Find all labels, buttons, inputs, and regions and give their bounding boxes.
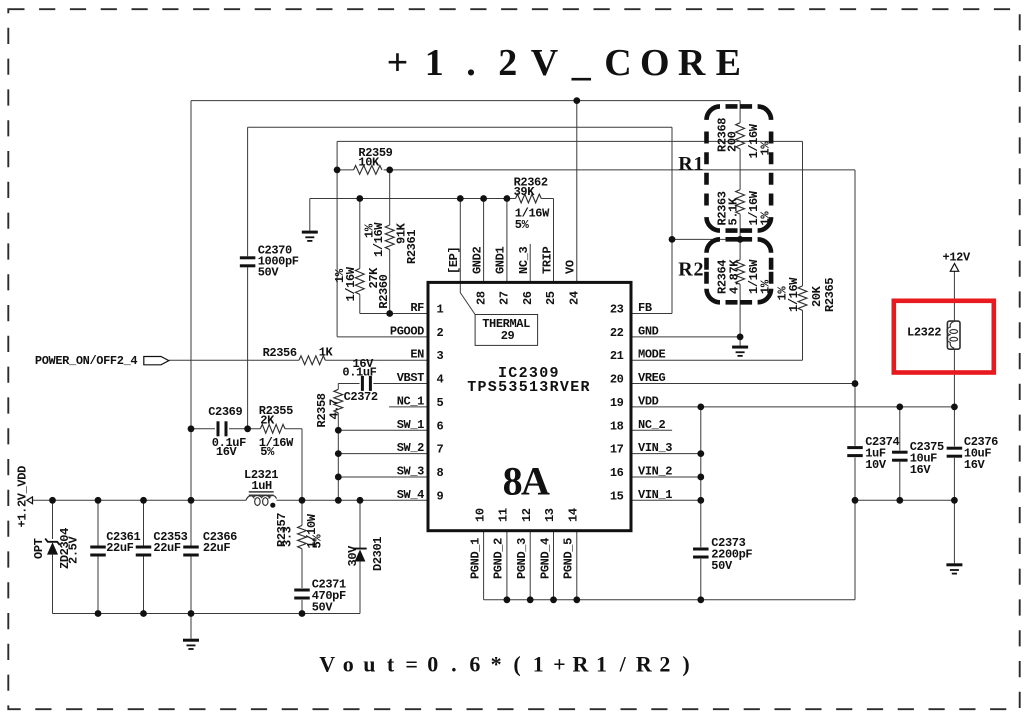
wire C2373 column: [700, 407, 702, 547]
junction FB riser node: [669, 236, 676, 243]
svg-text:MODE: MODE: [638, 348, 665, 362]
wire NC_3 stub: [529, 244, 531, 283]
svg-text:2: 2: [659, 652, 670, 677]
wire PGND bus: [484, 599, 855, 601]
junction PGND_5 on pgnd bus: [573, 596, 580, 603]
svg-text:4.87K: 4.87K: [728, 259, 742, 294]
wire C2353 column: [143, 500, 145, 545]
junction C2376 bottom on gnd row: [951, 497, 958, 504]
wire VIN_1 pin15: [631, 499, 701, 501]
svg-text:12: 12: [520, 508, 534, 522]
svg-text:C2369: C2369: [208, 405, 242, 419]
svg-text:0: 0: [427, 652, 438, 677]
zener diode ZD2304 2.5V (OPT): [45, 539, 60, 545]
svg-text:22uF: 22uF: [106, 541, 133, 555]
resistor R2359 10K: [354, 166, 382, 175]
svg-text:R: R: [573, 652, 590, 677]
capacitor C2369 0.1uF: [217, 421, 220, 436]
junction R1/R2 divider node: [737, 236, 744, 243]
svg-text:+12V: +12V: [943, 251, 971, 265]
svg-text:1: 1: [425, 42, 444, 84]
junction D2301 top on rail: [357, 497, 364, 504]
svg-text:.: .: [466, 42, 476, 84]
junction SW_3 node: [335, 474, 342, 481]
svg-text:SW_1: SW_1: [397, 418, 424, 432]
svg-text:FB: FB: [638, 301, 652, 315]
svg-text:VIN_3: VIN_3: [638, 441, 672, 455]
svg-text:16V: 16V: [964, 458, 986, 472]
svg-text:EN: EN: [410, 348, 424, 362]
wire PGOOD pin2: [337, 336, 428, 338]
capacitor C2375 10uF: [892, 451, 908, 454]
ground (right): [953, 500, 955, 563]
svg-text:1/16W: 1/16W: [372, 222, 386, 257]
svg-text:4.7: 4.7: [328, 399, 342, 420]
svg-text:39K: 39K: [514, 185, 536, 199]
svg-text:0.1uF: 0.1uF: [342, 365, 376, 379]
inductor L2322 (ferrite bead): [947, 321, 960, 349]
svg-text:20K: 20K: [810, 285, 824, 307]
svg-text:1: 1: [694, 153, 704, 175]
svg-text:26: 26: [521, 291, 535, 305]
svg-text:R: R: [678, 42, 706, 84]
svg-text:C2372: C2372: [344, 390, 378, 404]
svg-text:2: 2: [694, 259, 704, 281]
junction R2357 top on rail: [299, 497, 306, 504]
wire MODE pin21: [631, 359, 803, 361]
flag POWER_ON/OFF2_4: [144, 357, 169, 365]
svg-text:o: o: [343, 652, 354, 677]
ground (top, R2360 net): [309, 199, 311, 231]
capacitor C2373 2200pF: [693, 548, 709, 551]
wire R2360 leads: [359, 199, 361, 269]
svg-text:L2322: L2322: [907, 326, 941, 340]
wire SW_2: [338, 453, 428, 455]
wire [EP] stub: [459, 199, 461, 283]
wire RF pin1: [360, 313, 428, 315]
wire PGND_4 stub: [553, 531, 555, 600]
junction C2353 bottom on bus: [140, 610, 147, 617]
svg-text:9: 9: [437, 489, 444, 503]
wire R2358 column: [337, 383, 339, 389]
svg-text:50V: 50V: [258, 265, 280, 279]
svg-text:1: 1: [596, 652, 607, 677]
resistor R2364 4.87K: [736, 260, 745, 285]
svg-text:PGOOD: PGOOD: [390, 324, 424, 338]
junction R2361 bottom on RF: [386, 310, 393, 317]
svg-text:VREG: VREG: [638, 371, 665, 385]
wire FB pin23: [631, 313, 672, 315]
svg-text:NC_3: NC_3: [517, 247, 531, 274]
svg-text:(: (: [513, 652, 520, 677]
junction C2369 left node: [188, 425, 195, 432]
resistor R2361 91K: [385, 225, 394, 250]
svg-text:+: +: [387, 42, 409, 84]
wire NC_1 stub pin5: [389, 406, 428, 408]
wire Vout column: [190, 101, 192, 546]
inductor L2321 1uH: [249, 491, 274, 493]
wire PGND_3 stub: [529, 531, 531, 600]
junction VIN_1 node: [697, 497, 704, 504]
svg-text:NC_2: NC_2: [638, 418, 665, 432]
wire VBST pin4: [373, 383, 428, 385]
svg-text:VO: VO: [564, 260, 578, 274]
resistor R2362 39K: [516, 194, 542, 203]
resistor R2363 5.1K: [736, 190, 745, 215]
svg-text:GND1: GND1: [494, 247, 508, 274]
svg-text:3.3: 3.3: [281, 526, 295, 547]
svg-text:5%: 5%: [260, 445, 275, 459]
wire C2375 column: [899, 407, 901, 451]
wire GND1 stub: [506, 199, 508, 283]
wire SW_3: [338, 476, 428, 478]
wire bottom-left bus: [53, 613, 361, 615]
svg-text:SW_4: SW_4: [397, 488, 424, 502]
wire FB node to divider: [672, 238, 740, 240]
wire EN from flag: [169, 359, 299, 361]
wire R2362 right lead: [541, 198, 553, 200]
junction C2366 bottom / ground on bus: [188, 610, 195, 617]
svg-text:5: 5: [437, 396, 444, 410]
capacitor C2370 1000pF: [240, 256, 256, 259]
wire VIN_3 pin17: [631, 453, 701, 455]
wire VREG pin20: [631, 383, 855, 385]
svg-text:22: 22: [610, 326, 624, 340]
wire PGOOD to R2365 top: [337, 140, 802, 142]
junction PGND_4 on pgnd bus: [550, 596, 557, 603]
junction C2370 bottom node: [244, 425, 251, 432]
junction GND1 on gnd wire: [504, 195, 511, 202]
wire gnd bus top: [310, 198, 516, 200]
svg-text:SW_2: SW_2: [397, 441, 424, 455]
svg-text:PGND_5: PGND_5: [562, 538, 576, 579]
red highlight box: [894, 301, 994, 373]
svg-text:PGND_4: PGND_4: [538, 538, 552, 579]
capacitor C2353 22uF: [136, 546, 152, 549]
junction C2375 top on VDD: [896, 404, 903, 411]
svg-text:GND: GND: [638, 324, 659, 338]
svg-text:10K: 10K: [358, 155, 380, 169]
capacitor C2361 22uF: [90, 546, 106, 549]
svg-text:TPS53513RVER: TPS53513RVER: [467, 379, 591, 396]
junction C2361 top on rail: [95, 497, 102, 504]
svg-text:5%: 5%: [515, 218, 530, 232]
wire zener column: [52, 500, 54, 539]
thermal pad box: [475, 315, 537, 346]
svg-text:20: 20: [610, 373, 624, 387]
svg-text:u: u: [363, 652, 375, 677]
junction GND pin / R2364 bottom: [737, 333, 744, 340]
junction C2353 top on rail: [140, 497, 147, 504]
wire NC_2 stub pin18: [631, 429, 672, 431]
dashed box R1: [707, 106, 772, 230]
junction R2358 bottom on rail: [335, 497, 342, 504]
svg-text:VIN_1: VIN_1: [638, 488, 672, 502]
wire GND2 stub: [483, 199, 485, 283]
capacitor C2372 0.1uF: [361, 376, 364, 391]
junction SW_2 node: [335, 450, 342, 457]
resistor R2356 1K: [299, 356, 325, 365]
wire R2357/C2371 column: [301, 500, 303, 525]
svg-text:6: 6: [437, 419, 444, 433]
wire right gnd row: [855, 499, 954, 501]
svg-text:1K: 1K: [319, 346, 334, 360]
resistor R2365 20K: [798, 286, 807, 311]
svg-text:t: t: [387, 652, 395, 677]
junction R2360 top on gnd wire: [356, 195, 363, 202]
wire GND pin22: [631, 336, 740, 338]
ground (divider): [739, 337, 741, 346]
svg-text:.: .: [451, 652, 457, 677]
junction GND2 on gnd wire: [480, 195, 487, 202]
svg-text:V: V: [319, 652, 335, 677]
svg-text:7: 7: [437, 443, 444, 457]
svg-text:19: 19: [610, 396, 624, 410]
svg-text:V: V: [531, 42, 559, 84]
svg-text:24: 24: [568, 291, 582, 305]
wire R2365 top lead: [802, 141, 804, 286]
wire PGOOD riser: [336, 141, 338, 336]
capacitor C2376 10uF: [947, 447, 963, 450]
junction R2359 left: [334, 167, 341, 174]
svg-text:1/16W: 1/16W: [344, 266, 358, 301]
junction PGND_2 on pgnd bus: [504, 596, 511, 603]
svg-text:14: 14: [567, 508, 581, 522]
svg-text:22uF: 22uF: [203, 541, 230, 555]
junction C2374 bottom on gnd row: [852, 497, 859, 504]
svg-text:22uF: 22uF: [153, 541, 180, 555]
capacitor C2374 1uF: [847, 446, 863, 449]
svg-text:3: 3: [437, 349, 444, 363]
junction VDD node at C2373 column: [697, 404, 704, 411]
wire R2355 right lead to SW column: [285, 428, 302, 430]
junction C2366 top on rail: [188, 497, 195, 504]
wire R2359 to VREG: [384, 169, 855, 171]
wire VDD pin19: [631, 406, 954, 408]
svg-text:[EP]: [EP]: [447, 247, 461, 274]
svg-text:PGND_1: PGND_1: [468, 538, 482, 579]
svg-text:VIN_2: VIN_2: [638, 464, 672, 478]
wire C2369 line: [191, 428, 215, 430]
wire PGND_5 stub: [576, 531, 578, 600]
junction C2373 bottom on pgnd bus: [697, 596, 704, 603]
svg-text:VBST: VBST: [397, 371, 424, 385]
wire SW_4 / main rail: [33, 499, 247, 501]
IC U=IC2309 body: [428, 282, 631, 530]
wire PGND_1 stub: [483, 531, 485, 600]
port +1.2V_VDD: [27, 497, 33, 504]
svg-text:): ): [682, 652, 689, 677]
svg-text:RF: RF: [410, 301, 424, 315]
ground (bottom-left): [190, 614, 192, 639]
junction VREG node: [852, 380, 859, 387]
resistor R2360 27K: [355, 269, 364, 295]
svg-text:2: 2: [498, 42, 517, 84]
svg-text:5.1K: 5.1K: [727, 197, 741, 225]
svg-text:200: 200: [726, 131, 740, 152]
svg-text:30V: 30V: [346, 545, 360, 567]
svg-text:R: R: [678, 259, 693, 281]
svg-text:VDD: VDD: [638, 394, 659, 408]
junction EP on gnd wire: [457, 195, 464, 202]
svg-text:PGND_2: PGND_2: [492, 538, 506, 579]
svg-text:SW_3: SW_3: [397, 464, 424, 478]
wire D2301 column: [359, 500, 361, 548]
svg-text:=: =: [405, 652, 418, 677]
svg-text:PGND_3: PGND_3: [515, 538, 529, 579]
power +12V: [950, 264, 958, 272]
svg-text:6: 6: [469, 652, 480, 677]
svg-text:POWER_ON/OFF2_4: POWER_ON/OFF2_4: [35, 354, 137, 368]
svg-text:R2356: R2356: [263, 346, 297, 360]
svg-text:16V: 16V: [910, 463, 932, 477]
svg-text:GND2: GND2: [470, 247, 484, 274]
svg-text:E: E: [716, 42, 741, 84]
junction VIN_3 node: [697, 450, 704, 457]
svg-text:50V: 50V: [711, 559, 733, 573]
svg-text:8: 8: [437, 466, 444, 480]
svg-text:*: *: [491, 652, 502, 677]
resistor R2368 200: [736, 123, 745, 149]
junction VIN_2 node: [697, 474, 704, 481]
wire R2361 leads: [389, 170, 391, 225]
svg-text:/: /: [619, 652, 627, 677]
svg-text:+1.2V_VDD: +1.2V_VDD: [16, 466, 30, 528]
resistor R2358 4.7: [334, 389, 343, 413]
capacitor C2371 470pF: [294, 589, 310, 592]
svg-text:1uH: 1uH: [251, 479, 272, 493]
svg-text:29: 29: [501, 329, 515, 343]
svg-text:11: 11: [497, 508, 511, 522]
svg-text:R2360: R2360: [377, 274, 391, 308]
svg-text:10V: 10V: [865, 458, 887, 472]
svg-text:8: 8: [503, 459, 523, 504]
wire R2359 left lead: [337, 169, 354, 171]
svg-text:D2301: D2301: [371, 537, 385, 571]
diode D2301 30V: [353, 548, 366, 550]
svg-text:16V: 16V: [216, 445, 238, 459]
svg-text:4: 4: [437, 373, 444, 387]
wire +12V / L2322 / C2376 column: [953, 271, 955, 320]
svg-text:R: R: [678, 153, 693, 175]
svg-text:16: 16: [610, 466, 624, 480]
svg-text:15: 15: [610, 489, 624, 503]
junction C2361 bottom on bus: [95, 610, 102, 617]
svg-text:R: R: [636, 652, 653, 677]
svg-text:17: 17: [610, 443, 624, 457]
junction L2322 bottom on VDD: [951, 404, 958, 411]
svg-text:NC_1: NC_1: [397, 394, 424, 408]
svg-text:50V: 50V: [312, 601, 334, 615]
svg-text:TRIP: TRIP: [540, 247, 554, 274]
junction PGND_3 on pgnd bus: [527, 596, 534, 603]
resistor R2355 2K: [260, 424, 285, 433]
svg-text:O: O: [640, 42, 670, 84]
svg-text:1/16W: 1/16W: [787, 277, 801, 312]
wire FB loop top: [248, 126, 672, 128]
svg-text:A: A: [521, 459, 550, 504]
svg-text:2.5V: 2.5V: [67, 536, 81, 564]
svg-text:_: _: [571, 42, 592, 84]
junction C2375 bottom on gnd row: [896, 497, 903, 504]
svg-text:18: 18: [610, 419, 624, 433]
svg-text:13: 13: [543, 508, 557, 522]
junction SW_1 node: [335, 427, 342, 434]
wire TRIP stub: [553, 199, 555, 283]
wire Vout top loop: [191, 100, 740, 102]
svg-text:C: C: [604, 42, 631, 84]
svg-text:5%: 5%: [311, 534, 325, 549]
wire PGND_2 stub: [506, 531, 508, 600]
junction R2359 right / R2361 top: [386, 167, 393, 174]
svg-text:R2361: R2361: [405, 230, 419, 264]
svg-text:23: 23: [610, 303, 624, 317]
svg-text:OPT: OPT: [32, 538, 46, 559]
junction zener top on rail: [49, 497, 56, 504]
svg-text:27: 27: [498, 291, 512, 305]
wire VIN_2 pin16: [631, 476, 701, 478]
svg-text:2: 2: [437, 326, 444, 340]
wire VO stub: [576, 101, 578, 283]
svg-text:R2365: R2365: [823, 278, 837, 312]
chain leads: [739, 101, 741, 123]
svg-text:1: 1: [437, 303, 444, 317]
svg-text:25: 25: [544, 291, 558, 305]
wire SW_1: [338, 429, 428, 431]
dashed box R2: [707, 239, 772, 302]
capacitor C2366 22uF: [183, 546, 199, 549]
svg-text:10: 10: [473, 508, 487, 522]
resistor R2357 3.3: [298, 525, 307, 548]
svg-text:+: +: [553, 652, 566, 677]
junction C2371 bottom on bus: [299, 610, 306, 617]
junction VO top wire: [573, 97, 580, 104]
svg-text:28: 28: [474, 291, 488, 305]
svg-text:1: 1: [533, 652, 544, 677]
svg-text:21: 21: [610, 349, 624, 363]
svg-text:2K: 2K: [260, 414, 275, 428]
wire VREG/C2374 column: [854, 170, 856, 446]
wire FB column left: [247, 127, 249, 256]
wire C2361 column: [97, 500, 99, 545]
